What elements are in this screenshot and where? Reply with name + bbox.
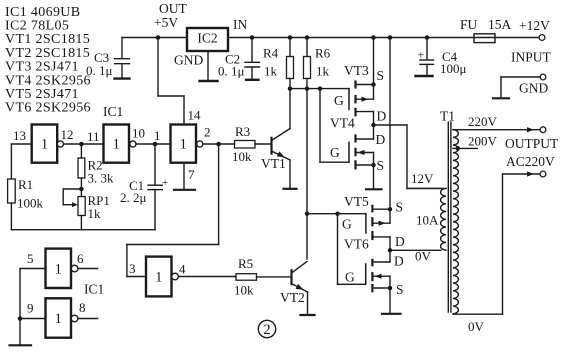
svg-text:12V: 12V (411, 171, 434, 186)
svg-text:S: S (396, 282, 404, 297)
svg-text:200V: 200V (468, 134, 498, 149)
svg-text:D: D (376, 132, 386, 147)
svg-text:6: 6 (77, 251, 84, 266)
svg-text:10k: 10k (232, 149, 252, 164)
svg-text:4: 4 (179, 262, 186, 277)
svg-text:7: 7 (188, 167, 195, 182)
svg-text:R1: R1 (18, 177, 33, 192)
svg-text:1: 1 (41, 137, 48, 153)
svg-text:IC1: IC1 (84, 282, 104, 297)
svg-text:11: 11 (87, 129, 100, 144)
svg-text:10A: 10A (416, 213, 439, 228)
svg-text:3: 3 (129, 261, 136, 276)
svg-text:1: 1 (180, 137, 187, 153)
svg-text:VT6 2SK2956: VT6 2SK2956 (5, 101, 91, 116)
svg-text:D: D (377, 109, 387, 124)
svg-text:G: G (330, 145, 340, 160)
svg-text:IC1: IC1 (103, 104, 123, 119)
svg-text:R5: R5 (238, 256, 253, 271)
svg-text:0. 1μ: 0. 1μ (86, 63, 113, 78)
svg-text:10k: 10k (234, 283, 254, 298)
svg-text:100μ: 100μ (440, 61, 467, 76)
svg-text:10: 10 (132, 126, 145, 141)
svg-text:GND: GND (519, 81, 548, 96)
svg-text:FU: FU (460, 17, 478, 32)
svg-text:G: G (334, 93, 344, 108)
svg-text:3. 3k: 3. 3k (88, 171, 115, 186)
svg-text:S: S (377, 68, 385, 83)
svg-text:0. 1μ: 0. 1μ (218, 64, 245, 79)
svg-text:R3: R3 (235, 124, 250, 139)
svg-text:100k: 100k (17, 196, 44, 211)
svg-text:S: S (377, 158, 385, 173)
svg-text:5: 5 (27, 251, 34, 266)
svg-text:D: D (394, 254, 404, 269)
svg-text:R4: R4 (263, 46, 279, 61)
svg-text:2: 2 (263, 322, 270, 338)
svg-text:+: + (162, 177, 168, 189)
svg-text:VT3: VT3 (344, 63, 369, 78)
svg-text:INPUT: INPUT (511, 50, 552, 65)
svg-text:12: 12 (61, 127, 74, 142)
svg-text:1k: 1k (88, 206, 102, 221)
svg-text:1k: 1k (316, 64, 330, 79)
svg-text:2: 2 (204, 125, 211, 140)
svg-text:GND: GND (174, 53, 203, 68)
svg-text:AC220V: AC220V (506, 154, 555, 169)
svg-text:1: 1 (55, 311, 62, 327)
svg-text:8: 8 (79, 300, 86, 315)
svg-text:OUTPUT: OUTPUT (505, 136, 559, 151)
svg-text:9: 9 (27, 301, 34, 316)
svg-text:VT5: VT5 (344, 194, 369, 209)
svg-text:D: D (395, 234, 405, 249)
svg-text:G: G (345, 270, 355, 285)
svg-text:0V: 0V (415, 249, 432, 264)
svg-text:G: G (342, 217, 352, 232)
svg-text:S: S (396, 200, 404, 215)
svg-text:1: 1 (154, 128, 161, 143)
svg-text:1: 1 (155, 270, 162, 286)
svg-text:VT4: VT4 (330, 116, 355, 131)
svg-text:1: 1 (113, 137, 120, 153)
svg-text:OUT: OUT (159, 1, 187, 16)
svg-text:VT6: VT6 (344, 237, 369, 252)
svg-text:+: + (418, 48, 425, 62)
svg-text:VT2: VT2 (280, 290, 305, 305)
svg-text:1: 1 (55, 261, 62, 277)
svg-text:VT1: VT1 (261, 156, 286, 171)
svg-text:220V: 220V (468, 114, 498, 129)
svg-text:13: 13 (13, 128, 26, 143)
svg-text:1k: 1k (264, 64, 278, 79)
svg-text:0V: 0V (468, 319, 485, 334)
svg-text:15A: 15A (488, 17, 512, 32)
svg-text:+12V: +12V (519, 18, 550, 33)
svg-text:2. 2μ: 2. 2μ (120, 190, 147, 205)
svg-text:+5V: +5V (154, 15, 178, 30)
svg-text:T1: T1 (440, 109, 455, 124)
svg-text:IN: IN (233, 17, 247, 32)
svg-text:IC2: IC2 (197, 31, 217, 46)
svg-text:14: 14 (188, 108, 202, 123)
svg-text:R6: R6 (315, 46, 331, 61)
